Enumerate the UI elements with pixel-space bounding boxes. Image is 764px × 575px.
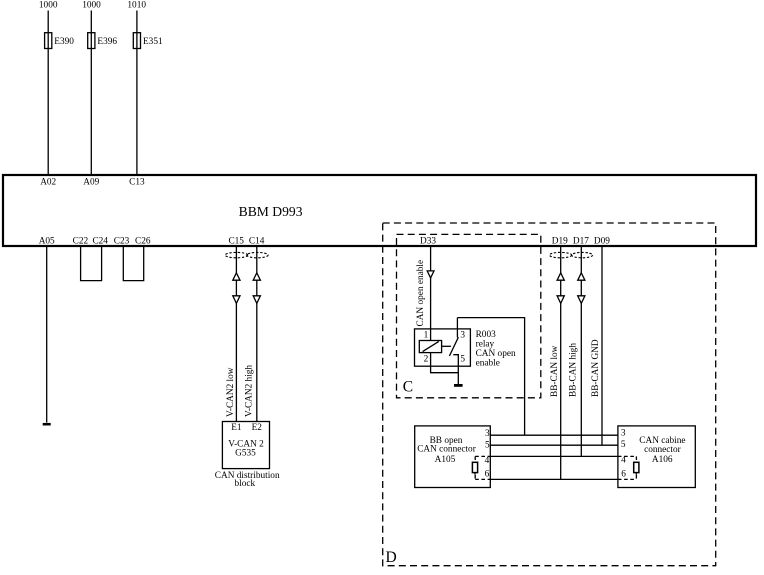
wire C15 (V-CAN2 low)	[235, 247, 237, 422]
wire pin5 A105-A106	[490, 444, 618, 446]
terminating resistor enclosure A105 (dashed)	[475, 456, 490, 479]
svg-text:3: 3	[621, 429, 626, 439]
svg-text:6: 6	[485, 470, 490, 480]
net label V-CAN2 low	[226, 367, 236, 417]
relay R003 box	[415, 329, 471, 366]
svg-text:2: 2	[424, 355, 429, 365]
relay actuation link	[442, 345, 451, 347]
node 1000 (second supply)	[82, 1, 101, 11]
relay switch blade	[449, 337, 458, 356]
wire C14 (V-CAN2 high)	[256, 247, 258, 422]
svg-text:C22: C22	[73, 236, 89, 246]
terminal end A05	[43, 423, 51, 426]
svg-text:D09: D09	[594, 236, 610, 246]
wire D33 (CAN open enable)	[430, 247, 432, 341]
wire pin3 A105-A106	[490, 434, 618, 436]
svg-text:CAN connector: CAN connector	[417, 445, 477, 455]
svg-text:A02: A02	[40, 178, 56, 188]
svg-text:D33: D33	[420, 236, 436, 246]
svg-text:E396: E396	[97, 37, 117, 47]
svg-text:A05: A05	[39, 236, 55, 246]
wire D09 (BB-CAN GND)	[601, 247, 603, 445]
terminating resistor A106	[634, 462, 639, 472]
twisted pair symbol D19/D17	[550, 252, 593, 257]
fuse E390	[45, 33, 52, 49]
svg-text:6: 6	[621, 470, 626, 480]
svg-text:E351: E351	[143, 37, 163, 47]
dashed enclosure D	[383, 223, 716, 566]
svg-text:C26: C26	[135, 236, 151, 246]
wire relay pin3 stem	[456, 318, 458, 338]
svg-text:V-CAN2 low: V-CAN2 low	[226, 367, 236, 417]
wire pin6 A105-A106	[490, 478, 618, 480]
svg-text:1000: 1000	[82, 1, 101, 11]
fuse E396	[88, 33, 95, 49]
net label BB-CAN GND	[591, 339, 601, 397]
arrow up on D19	[557, 273, 564, 280]
wire A05	[46, 247, 48, 423]
wire jumper C23-C26	[123, 247, 143, 281]
svg-text:E2: E2	[252, 423, 263, 433]
svg-text:enable: enable	[476, 359, 500, 369]
twisted pair symbol C15/C14	[225, 252, 268, 257]
svg-text:D19: D19	[552, 236, 568, 246]
net label BB-CAN high	[569, 343, 579, 397]
svg-text:E1: E1	[231, 423, 242, 433]
node 1010 (third supply)	[127, 1, 146, 11]
net label BB-CAN low	[550, 345, 560, 397]
arrow down on D33	[427, 271, 434, 278]
node 1000 (left supply)	[39, 1, 58, 11]
terminating resistor enclosure A106 (dashed)	[618, 456, 637, 479]
svg-text:1000: 1000	[39, 1, 58, 11]
svg-text:1010: 1010	[127, 1, 146, 11]
ECU box BBM D993	[3, 175, 756, 246]
svg-text:BB-CAN GND: BB-CAN GND	[591, 339, 601, 397]
wire A02 supply	[47, 11, 49, 175]
svg-text:E390: E390	[54, 37, 74, 47]
svg-text:5: 5	[460, 355, 465, 365]
fuse E351	[133, 33, 140, 49]
svg-text:BB-CAN low: BB-CAN low	[550, 345, 560, 397]
wire pin4 A105-A106	[490, 455, 618, 457]
svg-text:A105: A105	[435, 455, 456, 465]
arrow up on D17	[578, 273, 585, 280]
connector A106 box	[618, 426, 695, 488]
svg-text:connector: connector	[644, 445, 682, 455]
svg-text:CAN open enable: CAN open enable	[416, 260, 426, 327]
svg-text:C15: C15	[228, 236, 244, 246]
svg-text:block: block	[234, 479, 255, 489]
svg-text:5: 5	[485, 441, 490, 451]
svg-text:R003: R003	[476, 330, 496, 340]
wire coil pin2 to ground junction	[431, 353, 459, 373]
wire A09 supply	[90, 11, 92, 175]
wire jumper C22-C24	[81, 247, 102, 281]
svg-text:BB-CAN high: BB-CAN high	[569, 343, 579, 397]
svg-text:3: 3	[460, 330, 465, 340]
svg-text:D17: D17	[573, 236, 589, 246]
svg-text:C: C	[403, 378, 413, 395]
wire relay pin3 to connector pin3	[457, 318, 524, 436]
wire relay pin5 to ground	[453, 355, 458, 385]
arrow down on C15	[233, 296, 240, 304]
svg-text:BBM D993: BBM D993	[239, 204, 303, 219]
svg-text:3: 3	[485, 429, 490, 439]
net label CAN open enable	[416, 260, 426, 327]
svg-text:V-CAN2 high: V-CAN2 high	[245, 365, 255, 417]
svg-text:C24: C24	[92, 236, 108, 246]
svg-text:C23: C23	[114, 236, 130, 246]
arrow up on C15	[233, 273, 240, 280]
svg-text:A106: A106	[652, 455, 673, 465]
connector A105 box	[415, 426, 491, 488]
arrow down on D17	[578, 296, 585, 304]
svg-text:1: 1	[424, 330, 429, 340]
svg-text:A09: A09	[83, 178, 99, 188]
arrow down on C14	[253, 296, 260, 304]
arrow up on C14	[253, 273, 260, 280]
svg-text:G535: G535	[235, 449, 256, 459]
svg-text:D: D	[386, 549, 397, 566]
relay coil	[419, 341, 441, 353]
CAN distribution block G535	[222, 422, 269, 469]
svg-text:C14: C14	[249, 236, 265, 246]
svg-text:C13: C13	[129, 178, 145, 188]
wire D19 (BB-CAN low)	[560, 247, 562, 479]
svg-text:relay: relay	[476, 339, 495, 349]
terminating resistor A105	[472, 462, 477, 472]
ground	[454, 384, 463, 387]
wire D17 (BB-CAN high)	[580, 247, 582, 456]
svg-text:5: 5	[621, 440, 626, 450]
relay label R003	[476, 330, 516, 369]
dashed enclosure C	[397, 234, 541, 397]
arrow down on D19	[557, 296, 564, 304]
svg-text:CAN open: CAN open	[476, 349, 516, 359]
wire C13 supply	[136, 11, 138, 175]
net label V-CAN2 high	[245, 365, 255, 417]
svg-text:4: 4	[485, 456, 490, 466]
